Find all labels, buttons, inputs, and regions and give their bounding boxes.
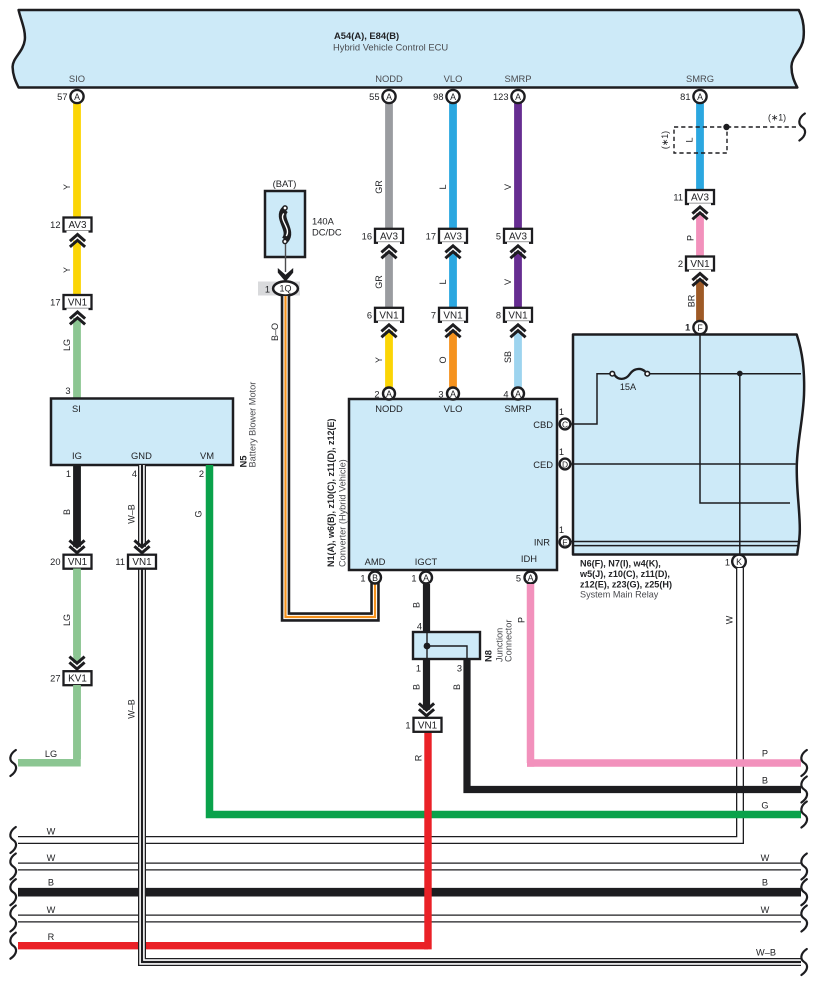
svg-text:4: 4	[132, 469, 137, 479]
svg-text:D: D	[562, 459, 568, 469]
svg-text:R: R	[48, 932, 55, 942]
svg-text:B–O: B–O	[270, 323, 280, 341]
svg-text:VN1: VN1	[418, 720, 438, 731]
svg-text:B: B	[62, 509, 72, 515]
svg-text:P: P	[762, 749, 768, 759]
svg-text:W: W	[47, 905, 56, 915]
svg-text:2: 2	[678, 259, 683, 269]
svg-text:1: 1	[416, 664, 421, 674]
svg-text:AV3: AV3	[380, 231, 398, 242]
svg-text:20: 20	[50, 557, 60, 567]
svg-text:A: A	[450, 389, 456, 399]
svg-text:V: V	[503, 184, 513, 190]
svg-text:AV3: AV3	[509, 231, 527, 242]
svg-text:4: 4	[503, 390, 508, 400]
svg-text:AV3: AV3	[691, 193, 709, 204]
svg-text:W–B: W–B	[127, 504, 137, 524]
svg-text:O: O	[438, 356, 448, 363]
svg-text:81: 81	[680, 92, 690, 102]
svg-text:W–B: W–B	[756, 948, 776, 958]
svg-text:E: E	[562, 537, 568, 547]
svg-text:DC/DC: DC/DC	[312, 227, 342, 238]
svg-text:Y: Y	[62, 184, 72, 190]
svg-text:11: 11	[673, 193, 683, 203]
svg-text:LG: LG	[45, 749, 57, 759]
svg-text:KV1: KV1	[68, 674, 87, 685]
svg-text:(∗1): (∗1)	[660, 131, 670, 149]
svg-text:2: 2	[374, 390, 379, 400]
svg-text:2: 2	[199, 469, 204, 479]
svg-text:1: 1	[559, 407, 564, 417]
svg-text:A: A	[386, 92, 392, 102]
svg-text:A: A	[74, 92, 80, 102]
svg-text:LG: LG	[62, 614, 72, 626]
svg-text:GR: GR	[374, 180, 384, 194]
svg-text:IGCT: IGCT	[415, 556, 438, 567]
svg-text:1: 1	[559, 447, 564, 457]
svg-text:15A: 15A	[620, 382, 637, 392]
svg-text:A: A	[515, 389, 521, 399]
svg-text:W: W	[47, 827, 56, 837]
svg-text:SMRG: SMRG	[686, 73, 714, 84]
svg-text:AMD: AMD	[365, 556, 386, 567]
svg-text:A: A	[528, 573, 534, 583]
svg-text:B: B	[762, 878, 768, 888]
svg-text:CBD: CBD	[533, 419, 553, 430]
svg-text:AV3: AV3	[444, 231, 462, 242]
svg-text:A: A	[423, 573, 429, 583]
svg-text:SMRP: SMRP	[504, 73, 531, 84]
svg-text:SIO: SIO	[69, 73, 85, 84]
svg-text:1: 1	[265, 285, 270, 295]
svg-text:140A: 140A	[312, 216, 335, 227]
svg-text:B: B	[762, 776, 768, 786]
svg-text:W: W	[761, 905, 770, 915]
svg-text:L: L	[438, 279, 448, 284]
svg-text:5: 5	[516, 574, 521, 584]
svg-text:Hybrid Vehicle Control ECU: Hybrid Vehicle Control ECU	[333, 42, 448, 53]
svg-text:16: 16	[362, 231, 372, 241]
svg-text:L: L	[438, 184, 448, 189]
svg-text:VN1: VN1	[68, 557, 88, 568]
svg-text:B: B	[48, 878, 54, 888]
svg-text:W–B: W–B	[127, 699, 137, 719]
svg-text:4: 4	[417, 622, 422, 632]
svg-text:1: 1	[725, 558, 730, 568]
svg-text:G: G	[194, 510, 204, 517]
svg-text:LG: LG	[62, 339, 72, 351]
svg-text:A: A	[450, 92, 456, 102]
svg-text:z12(E), z23(G), z25(H): z12(E), z23(G), z25(H)	[580, 579, 672, 589]
svg-text:27: 27	[50, 674, 60, 684]
svg-text:7: 7	[431, 310, 436, 320]
svg-text:6: 6	[367, 310, 372, 320]
svg-text:3: 3	[438, 390, 443, 400]
svg-text:IG: IG	[72, 450, 82, 461]
svg-text:B: B	[452, 684, 462, 690]
svg-text:W: W	[761, 853, 770, 863]
svg-text:Connector: Connector	[504, 620, 514, 662]
svg-text:V: V	[503, 279, 513, 285]
svg-text:W: W	[47, 853, 56, 863]
svg-text:B: B	[412, 602, 422, 608]
svg-text:B: B	[412, 684, 422, 690]
svg-text:1: 1	[411, 574, 416, 584]
svg-text:3: 3	[457, 664, 462, 674]
svg-text:(BAT): (BAT)	[273, 178, 297, 189]
svg-text:(∗1): (∗1)	[768, 113, 786, 123]
svg-text:System Main Relay: System Main Relay	[580, 590, 659, 600]
svg-text:1: 1	[559, 525, 564, 535]
svg-text:VN1: VN1	[690, 259, 710, 270]
svg-text:1: 1	[66, 469, 71, 479]
svg-text:GR: GR	[374, 275, 384, 289]
svg-text:8: 8	[496, 310, 501, 320]
svg-text:17: 17	[426, 231, 436, 241]
svg-text:G: G	[761, 801, 768, 811]
svg-text:3: 3	[65, 386, 70, 396]
svg-text:VLO: VLO	[444, 403, 463, 414]
svg-text:98: 98	[433, 92, 443, 102]
svg-text:17: 17	[50, 298, 60, 308]
svg-text:SMRP: SMRP	[504, 403, 531, 414]
svg-text:L: L	[685, 137, 695, 142]
svg-text:1: 1	[685, 323, 690, 333]
svg-text:Y: Y	[374, 357, 384, 363]
svg-text:VN1: VN1	[508, 310, 528, 321]
svg-text:VN1: VN1	[443, 310, 463, 321]
svg-text:Converter (Hybrid Vehicle): Converter (Hybrid Vehicle)	[338, 459, 348, 567]
svg-text:Battery Blower Motor: Battery Blower Motor	[248, 382, 258, 468]
svg-text:12: 12	[50, 220, 60, 230]
svg-text:VN1: VN1	[132, 557, 152, 568]
svg-text:IDH: IDH	[521, 553, 537, 564]
svg-text:A: A	[697, 92, 703, 102]
svg-text:NODD: NODD	[375, 403, 403, 414]
svg-text:VN1: VN1	[68, 298, 88, 309]
svg-text:11: 11	[115, 557, 125, 567]
svg-text:B: B	[372, 573, 378, 583]
svg-text:R: R	[414, 754, 424, 761]
svg-text:GND: GND	[131, 450, 152, 461]
svg-text:AV3: AV3	[69, 220, 87, 231]
svg-text:P: P	[686, 235, 696, 241]
svg-text:VN1: VN1	[379, 310, 399, 321]
svg-text:55: 55	[369, 92, 379, 102]
svg-text:123: 123	[493, 92, 509, 102]
svg-text:SB: SB	[503, 351, 513, 363]
svg-text:A: A	[386, 389, 392, 399]
svg-text:CED: CED	[533, 459, 553, 470]
svg-text:1: 1	[360, 574, 365, 584]
svg-text:VM: VM	[200, 450, 214, 461]
svg-text:1: 1	[405, 720, 410, 730]
svg-text:SI: SI	[72, 403, 81, 414]
svg-text:N1(A), w6(B), z10(C), z11(D),: N1(A), w6(B), z10(C), z11(D), z12(E)	[326, 418, 336, 567]
svg-text:K: K	[736, 557, 742, 567]
svg-text:w5(J), z10(C), z11(D),: w5(J), z10(C), z11(D),	[579, 569, 670, 579]
svg-text:5: 5	[496, 231, 501, 241]
svg-text:INR: INR	[534, 537, 550, 548]
svg-text:N6(F), N7(I), w4(K),: N6(F), N7(I), w4(K),	[580, 559, 661, 569]
svg-text:NODD: NODD	[375, 73, 403, 84]
svg-text:C: C	[562, 419, 568, 429]
svg-text:F: F	[697, 323, 703, 333]
svg-text:Y: Y	[62, 267, 72, 273]
svg-text:57: 57	[57, 92, 67, 102]
svg-text:W: W	[725, 615, 735, 624]
svg-text:N8: N8	[483, 650, 494, 662]
svg-text:1Q: 1Q	[279, 284, 291, 294]
svg-text:A: A	[515, 92, 521, 102]
svg-text:A54(A), E84(B): A54(A), E84(B)	[334, 30, 399, 41]
svg-text:P: P	[517, 617, 527, 623]
svg-text:BR: BR	[687, 294, 697, 307]
svg-text:VLO: VLO	[444, 73, 463, 84]
